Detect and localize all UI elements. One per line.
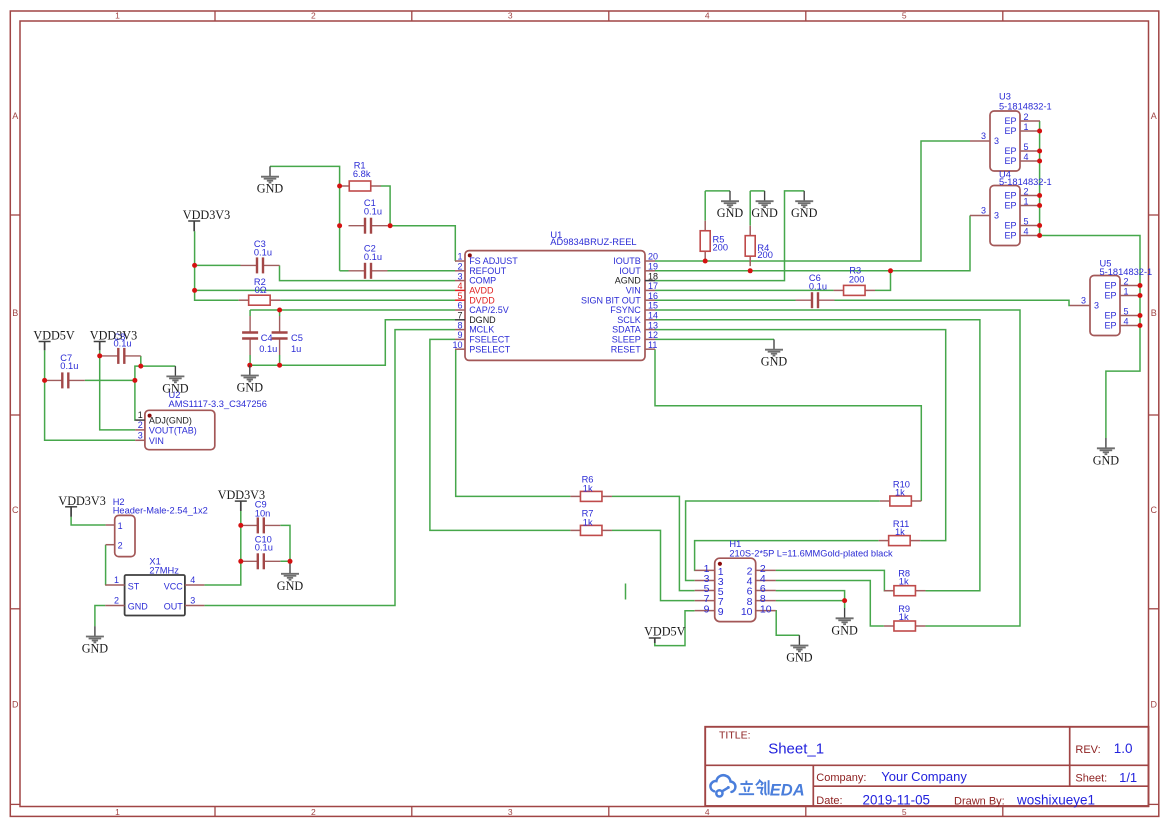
- svg-text:4: 4: [1024, 152, 1029, 162]
- svg-text:SDATA: SDATA: [612, 325, 641, 335]
- svg-text:3: 3: [457, 271, 462, 281]
- svg-text:H1: H1: [729, 539, 741, 549]
- svg-text:200: 200: [849, 275, 865, 285]
- svg-text:EP: EP: [1004, 221, 1016, 231]
- svg-text:4: 4: [1024, 227, 1029, 237]
- svg-text:VDD5V: VDD5V: [644, 625, 685, 639]
- svg-text:3: 3: [508, 807, 513, 817]
- svg-text:PSELECT: PSELECT: [469, 344, 511, 354]
- svg-text:5: 5: [1124, 307, 1129, 317]
- svg-text:27MHz: 27MHz: [149, 565, 179, 575]
- svg-text:GND: GND: [831, 623, 858, 637]
- svg-text:1: 1: [1124, 287, 1129, 297]
- svg-text:Sheet_1: Sheet_1: [768, 740, 824, 757]
- svg-text:18: 18: [648, 271, 658, 281]
- svg-text:3: 3: [138, 430, 143, 440]
- svg-text:2: 2: [1024, 187, 1029, 197]
- svg-text:EP: EP: [1004, 146, 1016, 156]
- svg-text:ST: ST: [128, 581, 140, 591]
- svg-text:FSELECT: FSELECT: [469, 335, 510, 345]
- svg-text:GND: GND: [717, 206, 744, 220]
- svg-text:TITLE:: TITLE:: [719, 730, 751, 742]
- svg-text:Header-Male-2.54_1x2: Header-Male-2.54_1x2: [113, 506, 208, 516]
- svg-text:A: A: [12, 111, 18, 121]
- svg-text:3: 3: [1094, 301, 1099, 311]
- svg-text:1k: 1k: [583, 483, 593, 493]
- svg-text:EP: EP: [1104, 321, 1116, 331]
- svg-text:2: 2: [1124, 277, 1129, 287]
- svg-text:Drawn By:: Drawn By:: [954, 796, 1005, 808]
- svg-text:DVDD: DVDD: [469, 295, 495, 305]
- svg-text:0.1u: 0.1u: [809, 281, 827, 291]
- svg-text:1: 1: [114, 575, 119, 585]
- svg-text:20: 20: [648, 252, 658, 262]
- svg-text:1k: 1k: [895, 487, 905, 497]
- svg-text:U3: U3: [999, 92, 1011, 102]
- svg-text:5-1814832-1: 5-1814832-1: [999, 177, 1052, 187]
- svg-text:14: 14: [648, 311, 658, 321]
- svg-text:5: 5: [1024, 142, 1029, 152]
- svg-text:3: 3: [981, 206, 986, 216]
- svg-text:1: 1: [1024, 122, 1029, 132]
- svg-text:2: 2: [311, 807, 316, 817]
- svg-text:EP: EP: [1004, 231, 1016, 241]
- svg-text:2: 2: [118, 541, 123, 551]
- svg-text:19: 19: [648, 262, 658, 272]
- svg-text:0.1u: 0.1u: [259, 344, 277, 354]
- svg-text:1: 1: [138, 410, 143, 420]
- svg-text:C4: C4: [261, 333, 273, 343]
- svg-text:4: 4: [190, 575, 195, 585]
- svg-text:GND: GND: [237, 381, 264, 395]
- svg-text:EP: EP: [1104, 311, 1116, 321]
- svg-text:4: 4: [1124, 317, 1129, 327]
- svg-text:12: 12: [648, 330, 658, 340]
- svg-text:VDD3V3: VDD3V3: [218, 488, 265, 502]
- svg-text:MCLK: MCLK: [469, 325, 494, 335]
- svg-text:2: 2: [138, 420, 143, 430]
- svg-text:0.1u: 0.1u: [364, 206, 382, 216]
- svg-text:VIN: VIN: [149, 436, 164, 446]
- svg-text:C: C: [1150, 505, 1157, 515]
- svg-text:13: 13: [648, 320, 658, 330]
- svg-text:0.1u: 0.1u: [60, 361, 78, 371]
- svg-text:2019-11-05: 2019-11-05: [863, 792, 931, 807]
- svg-text:200: 200: [757, 250, 773, 260]
- svg-text:4: 4: [705, 807, 710, 817]
- svg-text:REV:: REV:: [1075, 744, 1100, 756]
- svg-text:EP: EP: [1004, 126, 1016, 136]
- svg-text:0.1u: 0.1u: [364, 252, 382, 262]
- svg-text:5: 5: [902, 807, 907, 817]
- svg-text:Company:: Company:: [816, 772, 866, 784]
- svg-text:EP: EP: [1004, 191, 1016, 201]
- svg-text:210S-2*5P L=11.6MMGold-plated: 210S-2*5P L=11.6MMGold-plated black: [729, 549, 893, 559]
- svg-text:1k: 1k: [895, 527, 905, 537]
- svg-text:10: 10: [452, 340, 462, 350]
- svg-text:GND: GND: [786, 651, 813, 665]
- svg-text:9: 9: [457, 330, 462, 340]
- svg-text:9: 9: [718, 606, 724, 618]
- svg-text:1u: 1u: [291, 344, 301, 354]
- svg-text:EP: EP: [1104, 291, 1116, 301]
- svg-text:GND: GND: [751, 206, 778, 220]
- svg-text:IOUT: IOUT: [619, 266, 641, 276]
- svg-text:0.1u: 0.1u: [255, 543, 273, 553]
- svg-text:D: D: [12, 700, 19, 710]
- svg-text:EP: EP: [1004, 201, 1016, 211]
- svg-text:Your Company: Your Company: [881, 769, 967, 784]
- svg-text:GND: GND: [1093, 453, 1120, 467]
- svg-text:GND: GND: [128, 602, 149, 612]
- svg-text:ADJ(GND): ADJ(GND): [149, 416, 192, 426]
- svg-text:REFOUT: REFOUT: [469, 266, 507, 276]
- svg-text:GND: GND: [761, 355, 788, 369]
- svg-text:1k: 1k: [899, 612, 909, 622]
- svg-text:Sheet:: Sheet:: [1075, 772, 1107, 784]
- svg-text:SIGN BIT OUT: SIGN BIT OUT: [581, 295, 641, 305]
- svg-text:GND: GND: [791, 206, 818, 220]
- svg-text:6.8k: 6.8k: [353, 169, 371, 179]
- svg-text:2: 2: [311, 11, 316, 21]
- svg-text:1.0: 1.0: [1114, 741, 1133, 756]
- svg-text:FS ADJUST: FS ADJUST: [469, 256, 518, 266]
- svg-text:COMP: COMP: [469, 276, 496, 286]
- svg-text:5-1814832-1: 5-1814832-1: [999, 101, 1052, 111]
- svg-text:0.1u: 0.1u: [254, 247, 272, 257]
- svg-text:A: A: [1151, 111, 1157, 121]
- svg-text:Date:: Date:: [816, 795, 842, 807]
- svg-text:VDD3V3: VDD3V3: [58, 494, 105, 508]
- svg-text:AD9834BRUZ-REEL: AD9834BRUZ-REEL: [550, 237, 636, 247]
- svg-text:4: 4: [457, 281, 462, 291]
- svg-text:2: 2: [457, 262, 462, 272]
- svg-text:1: 1: [1024, 197, 1029, 207]
- svg-text:RESET: RESET: [611, 344, 642, 354]
- svg-text:AGND: AGND: [615, 276, 642, 286]
- svg-text:AVDD: AVDD: [469, 286, 494, 296]
- svg-text:OUT: OUT: [164, 602, 184, 612]
- svg-text:AMS1117-3.3_C347256: AMS1117-3.3_C347256: [169, 399, 267, 409]
- svg-text:woshixueye1: woshixueye1: [1016, 793, 1095, 808]
- svg-text:2: 2: [114, 595, 119, 605]
- svg-text:9: 9: [704, 603, 710, 615]
- svg-text:B: B: [1151, 308, 1157, 318]
- svg-text:1k: 1k: [899, 577, 909, 587]
- svg-text:3: 3: [190, 595, 195, 605]
- svg-text:10n: 10n: [255, 508, 271, 518]
- svg-text:3: 3: [994, 136, 999, 146]
- svg-text:GND: GND: [277, 579, 304, 593]
- svg-text:16: 16: [648, 291, 658, 301]
- svg-text:2: 2: [1024, 112, 1029, 122]
- svg-text:EDA: EDA: [770, 781, 805, 799]
- svg-text:EP: EP: [1104, 281, 1116, 291]
- svg-text:VDD3V3: VDD3V3: [90, 329, 137, 343]
- svg-text:200: 200: [713, 242, 729, 252]
- svg-text:VDD5V: VDD5V: [33, 329, 74, 343]
- svg-text:1k: 1k: [583, 517, 593, 527]
- svg-text:VOUT(TAB): VOUT(TAB): [149, 425, 197, 435]
- svg-text:1: 1: [118, 521, 123, 531]
- svg-text:15: 15: [648, 301, 658, 311]
- svg-text:FSYNC: FSYNC: [610, 305, 641, 315]
- svg-text:17: 17: [648, 281, 658, 291]
- svg-text:SCLK: SCLK: [617, 315, 641, 325]
- svg-text:0Ω: 0Ω: [255, 285, 267, 295]
- svg-text:5-1814832-1: 5-1814832-1: [1100, 267, 1153, 277]
- svg-text:C5: C5: [291, 333, 303, 343]
- svg-text:3: 3: [508, 11, 513, 21]
- svg-text:VDD3V3: VDD3V3: [183, 208, 230, 222]
- svg-text:1: 1: [115, 11, 120, 21]
- svg-text:D: D: [1150, 700, 1157, 710]
- svg-text:IOUTB: IOUTB: [613, 256, 641, 266]
- svg-text:EP: EP: [1004, 156, 1016, 166]
- svg-text:GND: GND: [82, 642, 109, 656]
- svg-text:VIN: VIN: [626, 286, 641, 296]
- svg-text:10: 10: [741, 606, 753, 618]
- svg-text:C: C: [12, 505, 19, 515]
- svg-text:1: 1: [115, 807, 120, 817]
- svg-text:3: 3: [1081, 296, 1086, 306]
- svg-text:GND: GND: [162, 381, 189, 395]
- svg-text:11: 11: [648, 340, 657, 350]
- svg-text:5: 5: [1024, 217, 1029, 227]
- svg-text:GND: GND: [257, 182, 284, 196]
- svg-text:3: 3: [981, 131, 986, 141]
- svg-text:CAP/2.5V: CAP/2.5V: [469, 305, 509, 315]
- svg-text:5: 5: [457, 291, 462, 301]
- svg-text:EP: EP: [1004, 116, 1016, 126]
- svg-text:6: 6: [457, 301, 462, 311]
- svg-text:DGND: DGND: [469, 315, 496, 325]
- svg-text:7: 7: [457, 311, 462, 321]
- svg-text:1: 1: [457, 252, 462, 262]
- svg-text:5: 5: [902, 11, 907, 21]
- svg-text:4: 4: [705, 11, 710, 21]
- svg-text:3: 3: [994, 211, 999, 221]
- svg-text:B: B: [12, 308, 18, 318]
- svg-text:VCC: VCC: [164, 581, 184, 591]
- svg-text:8: 8: [457, 320, 462, 330]
- svg-text:SLEEP: SLEEP: [612, 335, 641, 345]
- svg-text:1/1: 1/1: [1119, 770, 1137, 785]
- svg-text:10: 10: [760, 603, 772, 615]
